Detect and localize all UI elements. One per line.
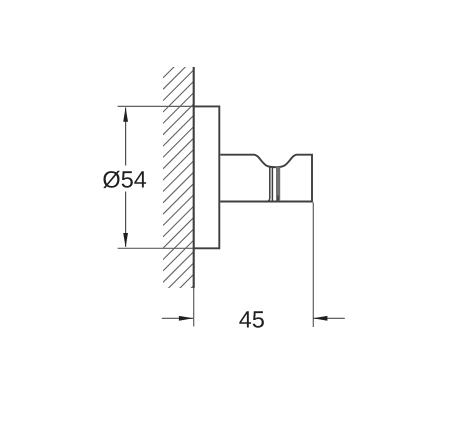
wall plate outline	[193, 106, 220, 248]
dimension line Ø54 upper segment	[125, 108, 127, 166]
dimension line Ø54 lower segment	[125, 192, 127, 247]
arrowhead Ø54 top	[123, 107, 128, 121]
arrowhead 45 right	[313, 316, 327, 321]
extension line hook tip (right 45-dim)	[312, 202, 314, 327]
wall hatch	[163, 36, 194, 317]
dimension line 45 right segment	[313, 317, 345, 319]
hook neck line middle	[271, 166, 273, 201]
arrowhead 45 left	[179, 316, 193, 321]
label Ø54	[103, 171, 146, 188]
extension line wall (left 45-dim)	[193, 288, 195, 326]
dimension line 45 left segment	[162, 317, 194, 319]
hook neck line left	[268, 166, 270, 202]
wall face line	[193, 67, 195, 288]
hook body outline	[220, 155, 312, 202]
hook neck band foot	[277, 196, 279, 202]
label 45	[239, 311, 264, 327]
hook neck shade band	[276, 167, 280, 201]
extension line plate top (Ø54)	[118, 105, 194, 107]
extension line plate bottom (Ø54)	[118, 247, 194, 249]
arrowhead Ø54 bottom	[123, 233, 128, 247]
